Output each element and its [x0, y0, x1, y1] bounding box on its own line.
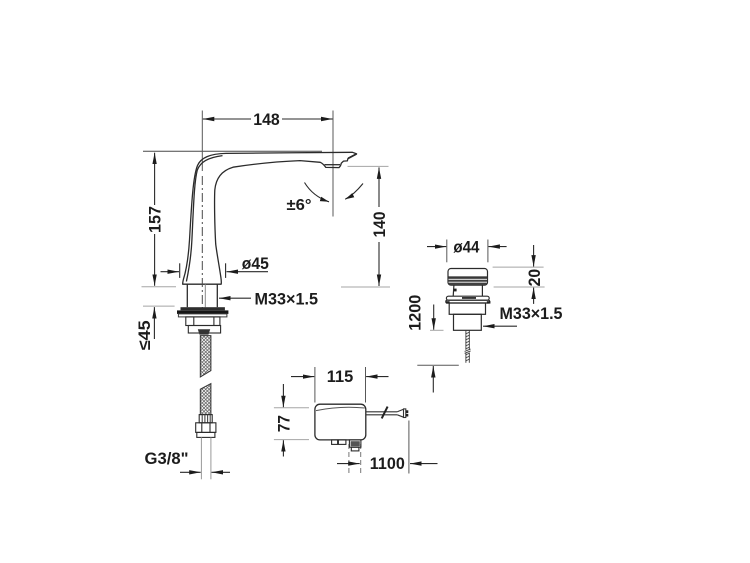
svg-text:M33×1.5: M33×1.5	[500, 304, 563, 323]
svg-text:1200: 1200	[405, 295, 424, 331]
svg-text:ø44: ø44	[453, 237, 479, 256]
svg-text:140: 140	[370, 212, 389, 238]
svg-text:≤45: ≤45	[135, 320, 154, 350]
svg-text:148: 148	[253, 110, 280, 129]
svg-text:77: 77	[274, 415, 293, 432]
svg-text:G3/8": G3/8"	[145, 449, 189, 468]
svg-text:M33×1.5: M33×1.5	[255, 289, 319, 308]
svg-text:ø45: ø45	[242, 254, 269, 273]
svg-text:157: 157	[146, 206, 165, 233]
svg-text:115: 115	[327, 367, 354, 386]
svg-text:±6°: ±6°	[287, 197, 312, 214]
svg-text:20: 20	[525, 269, 544, 287]
svg-text:1100: 1100	[370, 454, 405, 473]
